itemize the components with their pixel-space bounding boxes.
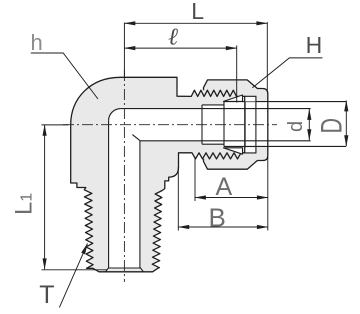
back ferrule top	[245, 96, 256, 101]
ell right ext	[42, 124, 69, 126]
ferrule verticals	[244, 96, 246, 153]
B dim	[308, 109, 310, 140]
L1 bottom ext	[194, 157, 196, 201]
L1 dim	[195, 197, 268, 199]
bore left line	[108, 120, 110, 268]
svg-text:T: T	[39, 281, 54, 309]
nut outline	[204, 80, 268, 169]
svg-text:B: B	[209, 203, 226, 233]
bore end + chamfers at bottom	[106, 268, 144, 272]
L dim	[124, 47, 236, 49]
counterbore white	[202, 105, 245, 144]
dimension/extension lines	[31, 22, 347, 307]
front ferrule bottom	[224, 148, 243, 154]
svg-text:A: A	[216, 173, 233, 201]
bore white	[109, 109, 202, 268]
A/B right ext	[124, 22, 267, 24]
nut N (fill)	[204, 80, 268, 169]
svg-text:L: L	[191, 0, 204, 24]
elbow body	[71, 77, 245, 271]
bore right line	[139, 141, 141, 268]
svg-text:h: h	[31, 30, 43, 55]
bore bottom line	[140, 140, 311, 142]
svg-text:H: H	[306, 32, 323, 58]
L right ext / nut face	[236, 46, 238, 103]
back ferrule bottom	[245, 148, 256, 153]
A dim	[178, 226, 267, 228]
H leader	[59, 244, 87, 308]
L1 top ext	[42, 269, 108, 271]
B left ext	[267, 157, 269, 231]
d dim	[345, 101, 347, 147]
tube white	[224, 102, 268, 147]
body outline stroke	[71, 77, 245, 271]
tube OD lines	[224, 101, 346, 103]
bore corner arc	[109, 109, 121, 121]
counterbore lines	[202, 104, 224, 106]
tube end	[223, 102, 225, 147]
svg-text:D: D	[316, 118, 348, 134]
h leader	[252, 58, 322, 88]
svg-text:d: d	[285, 121, 307, 132]
drill chamfer	[132, 135, 140, 141]
D dim	[31, 53, 98, 99]
centerlines	[63, 70, 277, 282]
L left ext	[266, 22, 268, 92]
A left ext	[177, 167, 179, 231]
bore top line	[121, 108, 311, 110]
front ferrule top	[224, 95, 243, 101]
ell dim	[44, 125, 46, 269]
svg-text:ℓ: ℓ	[168, 25, 178, 51]
